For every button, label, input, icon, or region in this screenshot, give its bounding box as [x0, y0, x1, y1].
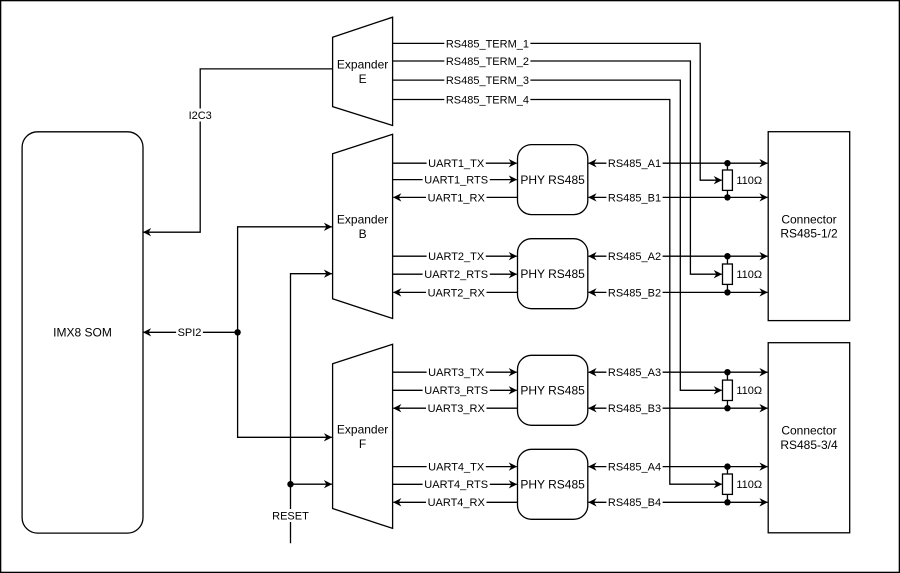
svg-text:UART3_RX: UART3_RX [428, 403, 486, 415]
svg-text:E: E [359, 72, 367, 86]
svg-text:RS485_TERM_3: RS485_TERM_3 [446, 75, 529, 87]
svg-text:UART3_TX: UART3_TX [428, 367, 485, 379]
svg-text:110Ω: 110Ω [736, 385, 762, 397]
svg-text:UART1_TX: UART1_TX [428, 158, 485, 170]
svg-text:110Ω: 110Ω [736, 175, 762, 187]
svg-text:UART3_RTS: UART3_RTS [424, 385, 488, 397]
svg-text:UART4_TX: UART4_TX [428, 462, 485, 474]
svg-text:Expander: Expander [337, 58, 388, 72]
svg-text:I2C3: I2C3 [189, 110, 212, 122]
svg-text:RS485_A2: RS485_A2 [608, 251, 661, 263]
svg-text:RS485_A1: RS485_A1 [608, 158, 661, 170]
svg-text:110Ω: 110Ω [736, 269, 762, 281]
svg-text:RS485_A3: RS485_A3 [608, 367, 661, 379]
svg-text:B: B [359, 227, 367, 241]
svg-text:Expander: Expander [337, 422, 388, 436]
svg-text:SPI2: SPI2 [178, 327, 202, 339]
svg-text:UART1_RTS: UART1_RTS [424, 175, 488, 187]
svg-text:RS485-3/4: RS485-3/4 [780, 438, 838, 452]
svg-text:IMX8 SOM: IMX8 SOM [53, 326, 112, 340]
svg-text:RS485_B1: RS485_B1 [608, 192, 661, 204]
svg-text:UART4_RX: UART4_RX [428, 497, 486, 509]
svg-text:RS485_A4: RS485_A4 [608, 462, 661, 474]
svg-text:PHY RS485: PHY RS485 [520, 173, 585, 187]
svg-text:Expander: Expander [337, 213, 388, 227]
svg-text:RS485_TERM_4: RS485_TERM_4 [446, 94, 529, 106]
svg-text:PHY RS485: PHY RS485 [520, 267, 585, 281]
svg-text:PHY RS485: PHY RS485 [520, 384, 585, 398]
svg-text:Connector: Connector [781, 423, 836, 437]
svg-text:PHY RS485: PHY RS485 [520, 478, 585, 492]
svg-text:Connector: Connector [781, 212, 836, 226]
svg-text:UART2_RTS: UART2_RTS [424, 269, 488, 281]
svg-text:RS485_B4: RS485_B4 [608, 497, 661, 509]
svg-text:110Ω: 110Ω [736, 479, 762, 491]
svg-text:RS485_B2: RS485_B2 [608, 287, 661, 299]
svg-text:RS485_B3: RS485_B3 [608, 403, 661, 415]
svg-text:RS485_TERM_1: RS485_TERM_1 [446, 38, 529, 50]
svg-text:UART2_RX: UART2_RX [428, 287, 486, 299]
svg-text:RS485-1/2: RS485-1/2 [780, 227, 838, 241]
svg-text:RS485_TERM_2: RS485_TERM_2 [446, 56, 529, 68]
svg-text:UART1_RX: UART1_RX [428, 192, 486, 204]
svg-text:RESET: RESET [272, 510, 309, 522]
svg-text:F: F [359, 437, 366, 451]
svg-text:UART4_RTS: UART4_RTS [424, 479, 488, 491]
svg-text:UART2_TX: UART2_TX [428, 251, 485, 263]
